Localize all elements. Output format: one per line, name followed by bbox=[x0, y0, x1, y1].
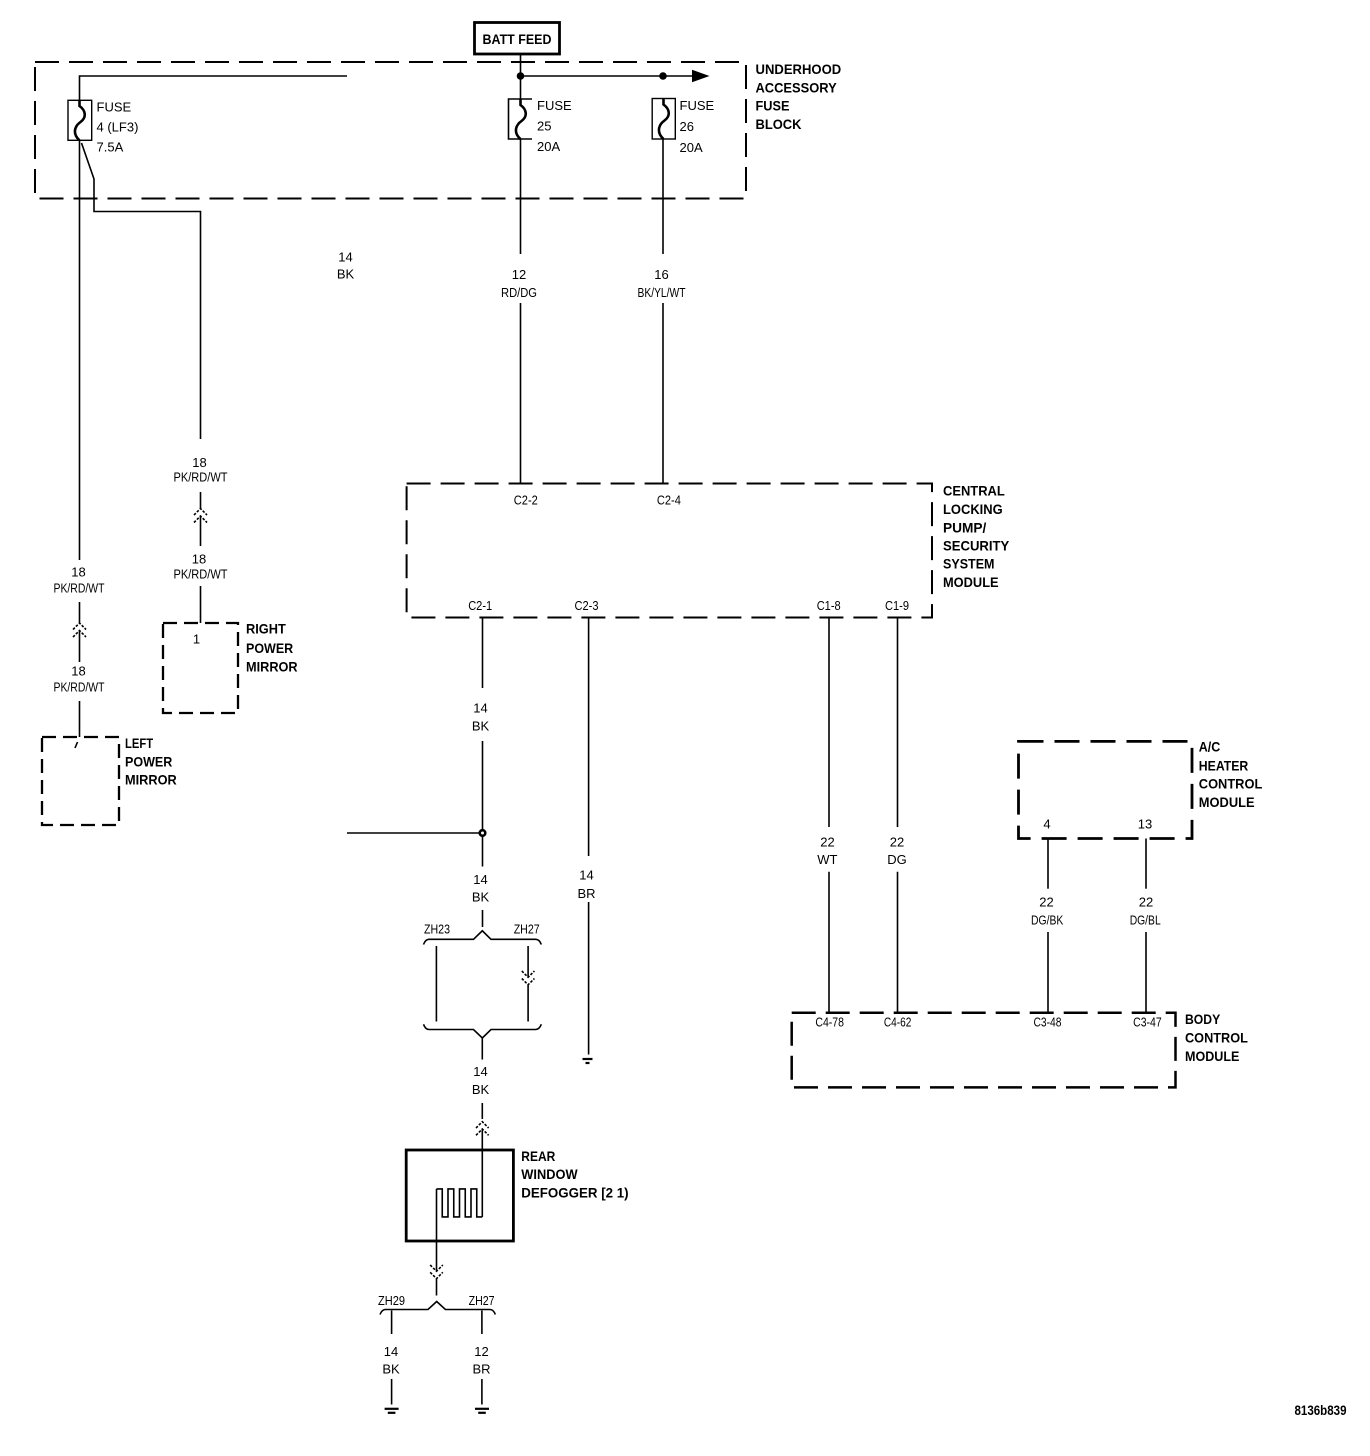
splice brace bottom bbox=[424, 1024, 542, 1038]
svg-text:PK/RD/WT: PK/RD/WT bbox=[174, 470, 228, 485]
svg-text:DG/BK: DG/BK bbox=[1031, 913, 1064, 928]
right power mirror box bbox=[163, 623, 238, 713]
fuse F26 bbox=[652, 98, 714, 155]
label 22 DG/BK bbox=[1031, 895, 1064, 928]
in-line connector below defogger (down) bbox=[430, 1265, 443, 1279]
label LEFT POWER MIRROR bbox=[125, 735, 177, 788]
svg-text:UNDERHOOD: UNDERHOOD bbox=[756, 61, 842, 77]
wire to C3-48 bbox=[1047, 932, 1049, 1013]
label 12 BR ground right bbox=[472, 1344, 490, 1377]
svg-text:REAR: REAR bbox=[521, 1148, 555, 1164]
svg-text:BLOCK: BLOCK bbox=[756, 116, 802, 132]
wire ZH27 branch lower bbox=[527, 985, 529, 1022]
label A/C HEATER CONTROL MODULE bbox=[1199, 739, 1263, 811]
svg-text:1: 1 bbox=[193, 632, 200, 647]
svg-text:13: 13 bbox=[1138, 817, 1152, 832]
svg-text:MODULE: MODULE bbox=[1185, 1048, 1239, 1064]
svg-text:16: 16 bbox=[654, 267, 668, 282]
wire fuse 25 output bbox=[520, 139, 522, 254]
svg-text:12: 12 bbox=[512, 267, 526, 282]
in-line connector above defogger (up) bbox=[476, 1122, 489, 1136]
svg-text:C2-4: C2-4 bbox=[657, 493, 681, 508]
svg-text:C2-3: C2-3 bbox=[575, 598, 599, 613]
svg-text:C1-8: C1-8 bbox=[817, 598, 841, 613]
wire stub from left into junction bbox=[347, 832, 479, 834]
wire C1-8 down bbox=[828, 618, 830, 828]
wire C2-3 to ground bbox=[588, 902, 590, 1055]
wire below connector bbox=[200, 516, 202, 546]
wire C2-1 down bbox=[482, 618, 484, 689]
label 16 BK/YL/WT bbox=[638, 267, 686, 300]
pin mark left power mirror bbox=[75, 742, 78, 748]
svg-text:BATT FEED: BATT FEED bbox=[483, 31, 552, 47]
svg-text:MODULE: MODULE bbox=[943, 574, 999, 590]
wire to C2-2 bbox=[520, 303, 522, 483]
wire C1-9 to BCM bbox=[897, 872, 899, 1013]
junction at fuse 25 feed bbox=[517, 72, 525, 80]
svg-text:FUSE: FUSE bbox=[756, 98, 790, 114]
svg-text:22: 22 bbox=[1039, 895, 1053, 910]
svg-text:14: 14 bbox=[579, 868, 593, 883]
label 18 PK/RD/WT right branch upper bbox=[174, 455, 228, 485]
svg-text:BR: BR bbox=[472, 1362, 490, 1377]
svg-text:18: 18 bbox=[71, 664, 85, 679]
wire arrow continuation right bbox=[663, 70, 710, 82]
svg-text:C3-47: C3-47 bbox=[1133, 1015, 1162, 1030]
label 14 BK ground left bbox=[382, 1344, 400, 1377]
svg-text:LEFT: LEFT bbox=[125, 735, 153, 751]
svg-text:A/C: A/C bbox=[1199, 739, 1221, 755]
wire fuse 4 feed bbox=[80, 76, 348, 100]
svg-text:POWER: POWER bbox=[246, 640, 293, 656]
svg-text:BODY: BODY bbox=[1185, 1011, 1221, 1027]
svg-text:PK/RD/WT: PK/RD/WT bbox=[54, 581, 105, 596]
svg-text:BK/YL/WT: BK/YL/WT bbox=[638, 285, 686, 300]
wire fuse 26 output bbox=[662, 139, 664, 254]
body control module box bbox=[792, 1013, 1176, 1088]
central locking pump security system module box bbox=[407, 484, 932, 618]
wire to ground right bbox=[481, 1379, 483, 1405]
svg-text:MIRROR: MIRROR bbox=[246, 659, 298, 675]
label 14 BK defogger feed bbox=[472, 1064, 490, 1097]
svg-text:MODULE: MODULE bbox=[1199, 794, 1255, 810]
wire C2-3 down bbox=[588, 618, 590, 857]
wire ZH27 branch upper bbox=[527, 946, 529, 977]
svg-text:14: 14 bbox=[384, 1344, 398, 1359]
svg-text:CENTRAL: CENTRAL bbox=[943, 483, 1005, 499]
wire to splice junction bbox=[482, 741, 484, 830]
svg-text:22: 22 bbox=[820, 835, 834, 850]
svg-text:BK: BK bbox=[382, 1362, 400, 1377]
svg-text:14: 14 bbox=[473, 1064, 487, 1079]
svg-text:26: 26 bbox=[680, 119, 694, 134]
label UNDERHOOD ACCESSORY FUSE BLOCK bbox=[756, 61, 842, 132]
junction ring bbox=[480, 830, 486, 836]
in-line connector right branch bbox=[194, 509, 207, 523]
fuse F25 bbox=[509, 98, 573, 154]
svg-text:SECURITY: SECURITY bbox=[943, 537, 1010, 553]
svg-text:18: 18 bbox=[71, 565, 85, 580]
fuse F4 bbox=[68, 100, 138, 155]
label 18 PK/RD/WT left branch lower bbox=[54, 664, 105, 695]
svg-text:22: 22 bbox=[890, 835, 904, 850]
svg-text:RD/DG: RD/DG bbox=[501, 285, 537, 300]
svg-text:14: 14 bbox=[338, 250, 352, 265]
wire fuse 4 branch to right power mirror bbox=[82, 143, 201, 439]
svg-text:18: 18 bbox=[192, 455, 206, 470]
svg-text:12: 12 bbox=[474, 1344, 488, 1359]
label 14 BK (spare feed) bbox=[337, 250, 355, 282]
wire pin 13 down bbox=[1145, 839, 1147, 889]
svg-text:DEFOGGER [2 1): DEFOGGER [2 1) bbox=[521, 1185, 628, 1201]
node BATT FEED bbox=[475, 23, 560, 55]
wire into defogger bbox=[481, 1129, 483, 1217]
svg-text:ZH27: ZH27 bbox=[469, 1293, 495, 1308]
wire below junction bbox=[482, 837, 484, 867]
label 12 RD/DG bbox=[501, 267, 537, 300]
svg-text:7.5A: 7.5A bbox=[97, 140, 124, 155]
ground right bbox=[475, 1409, 489, 1413]
wire to ground left bbox=[391, 1379, 393, 1405]
ground C2-3 bbox=[583, 1059, 593, 1063]
wire C1-8 to BCM bbox=[828, 872, 830, 1013]
svg-text:MIRROR: MIRROR bbox=[125, 772, 177, 788]
label CENTRAL LOCKING PUMP SECURITY SYSTEM MODULE bbox=[943, 483, 1010, 590]
svg-text:ZH27: ZH27 bbox=[514, 922, 540, 937]
svg-text:FUSE: FUSE bbox=[97, 100, 132, 115]
wire C1-9 down bbox=[897, 618, 899, 828]
svg-text:C3-48: C3-48 bbox=[1034, 1015, 1062, 1030]
underhood accessory fuse block box bbox=[35, 62, 746, 199]
svg-text:DG/BL: DG/BL bbox=[1130, 913, 1161, 928]
wire ZH27 branch lower splice bbox=[481, 1311, 483, 1335]
svg-text:18: 18 bbox=[192, 552, 206, 567]
label 22 WT bbox=[817, 835, 837, 868]
svg-text:22: 22 bbox=[1139, 895, 1153, 910]
svg-text:POWER: POWER bbox=[125, 754, 172, 770]
splice brace top bbox=[424, 931, 542, 945]
wire BATT FEED to fuse 25 bbox=[520, 54, 522, 100]
wire into left power mirror bbox=[79, 701, 81, 737]
label 14 BR bbox=[577, 868, 595, 902]
svg-text:25: 25 bbox=[537, 119, 551, 134]
svg-text:ZH29: ZH29 bbox=[378, 1293, 405, 1308]
svg-text:BK: BK bbox=[337, 267, 355, 282]
wire left branch to connector bbox=[79, 602, 81, 623]
svg-text:PK/RD/WT: PK/RD/WT bbox=[174, 567, 228, 582]
wire below splice bbox=[481, 1038, 483, 1060]
svg-text:FUSE: FUSE bbox=[537, 98, 572, 113]
svg-text:SYSTEM: SYSTEM bbox=[943, 556, 995, 572]
wire to connector above defogger bbox=[481, 1103, 483, 1119]
svg-text:C4-78: C4-78 bbox=[815, 1015, 844, 1030]
svg-text:20A: 20A bbox=[680, 140, 703, 155]
svg-text:CONTROL: CONTROL bbox=[1185, 1030, 1248, 1046]
svg-text:C4-62: C4-62 bbox=[884, 1015, 912, 1030]
wire below connector bbox=[79, 631, 81, 663]
svg-text:C2-1: C2-1 bbox=[468, 598, 492, 613]
svg-text:PK/RD/WT: PK/RD/WT bbox=[54, 680, 105, 695]
svg-text:4 (LF3): 4 (LF3) bbox=[97, 120, 139, 135]
in-line connector ZH27 branch (down) bbox=[522, 971, 535, 985]
label 14 BK C2-1 upper bbox=[472, 701, 490, 734]
junction at fuse 26 feed bbox=[659, 72, 667, 80]
defogger grid element bbox=[437, 1189, 483, 1217]
wire into right power mirror bbox=[200, 586, 202, 623]
svg-text:BK: BK bbox=[472, 1082, 490, 1097]
svg-text:CONTROL: CONTROL bbox=[1199, 776, 1263, 792]
svg-text:8136b839: 8136b839 bbox=[1295, 1402, 1347, 1418]
svg-text:FUSE: FUSE bbox=[680, 98, 715, 113]
left power mirror box bbox=[42, 737, 119, 825]
svg-text:HEATER: HEATER bbox=[1199, 758, 1249, 774]
svg-text:BK: BK bbox=[472, 719, 490, 734]
wire to C3-47 bbox=[1145, 932, 1147, 1013]
label 14 BK below junction bbox=[472, 872, 490, 905]
label BODY CONTROL MODULE bbox=[1185, 1011, 1248, 1064]
wire to ground splice bbox=[436, 1279, 438, 1296]
svg-text:WINDOW: WINDOW bbox=[521, 1166, 578, 1182]
svg-text:LOCKING: LOCKING bbox=[943, 501, 1003, 517]
wire bus BATT FEED junction to fuse 26 bbox=[521, 75, 664, 77]
svg-text:14: 14 bbox=[473, 872, 487, 887]
wire ZH23 branch bbox=[435, 946, 437, 1022]
wire to splice brace bbox=[482, 910, 484, 927]
svg-text:BR: BR bbox=[577, 886, 595, 901]
label REAR WINDOW DEFOGGER bbox=[521, 1148, 628, 1201]
label 18 PK/RD/WT left branch upper bbox=[54, 565, 105, 596]
label 22 DG/BL bbox=[1130, 895, 1161, 928]
wire fuse 4 output down to left power mirror bbox=[79, 140, 81, 560]
wire defogger return bbox=[436, 1189, 438, 1271]
wire ZH29 branch bbox=[391, 1311, 393, 1335]
svg-text:PUMP/: PUMP/ bbox=[943, 520, 986, 536]
label 22 DG bbox=[887, 835, 907, 868]
svg-text:RIGHT: RIGHT bbox=[246, 621, 286, 637]
in-line connector left branch bbox=[73, 623, 86, 637]
rear window defogger box bbox=[406, 1150, 513, 1241]
svg-text:ZH23: ZH23 bbox=[424, 922, 450, 937]
ground splice brace bbox=[380, 1302, 495, 1315]
svg-text:C1-9: C1-9 bbox=[885, 598, 909, 613]
wire right branch to connector bbox=[200, 492, 202, 508]
ground left bbox=[385, 1409, 399, 1413]
wire pin 4 down bbox=[1047, 839, 1049, 889]
svg-text:BK: BK bbox=[472, 890, 490, 905]
svg-text:4: 4 bbox=[1043, 817, 1050, 832]
svg-text:ACCESSORY: ACCESSORY bbox=[756, 80, 838, 96]
a/c heater control module box bbox=[1019, 741, 1193, 838]
label RIGHT POWER MIRROR bbox=[246, 621, 298, 675]
svg-text:14: 14 bbox=[473, 701, 487, 716]
svg-text:20A: 20A bbox=[537, 139, 560, 154]
svg-text:WT: WT bbox=[817, 852, 837, 867]
label 18 PK/RD/WT right branch lower bbox=[174, 552, 228, 582]
wire to C2-4 bbox=[662, 303, 664, 483]
svg-text:C2-2: C2-2 bbox=[514, 493, 538, 508]
svg-text:DG: DG bbox=[887, 852, 907, 867]
